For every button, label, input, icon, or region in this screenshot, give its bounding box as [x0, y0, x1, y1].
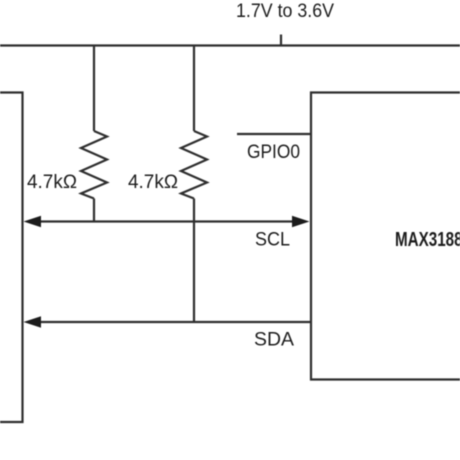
svg-text:4.7kΩ: 4.7kΩ	[128, 172, 178, 193]
svg-text:GPIO0: GPIO0	[247, 142, 300, 163]
svg-text:SDA: SDA	[254, 330, 294, 351]
wire: R2 to SDA net	[193, 199, 195, 323]
svg-text:1.7V to 3.6V: 1.7V to 3.6V	[236, 1, 334, 22]
svg-text:SCL: SCL	[255, 230, 290, 251]
resistor R1 4.7k	[81, 131, 107, 199]
SDA arrowhead left	[24, 316, 42, 328]
SCL bus wire	[36, 220, 296, 222]
wire: supply rail to resistor R1	[93, 46, 95, 132]
supply node tick	[280, 35, 282, 47]
SCL arrowhead left	[24, 216, 42, 228]
resistor R2 4.7k	[181, 131, 207, 199]
left box (host controller, cut off at left edge)	[0, 93, 23, 423]
wire: supply rail to resistor R2	[193, 46, 195, 132]
svg-text:MAX31889: MAX31889	[395, 229, 460, 251]
SCL arrowhead right	[292, 216, 310, 228]
SDA bus wire	[36, 321, 311, 323]
GPIO0 pin wire	[237, 133, 311, 135]
right box U1 MAX31889 (cut off at right edge)	[311, 93, 460, 380]
wire: R1 to SCL net	[93, 199, 95, 222]
svg-text:4.7kΩ: 4.7kΩ	[27, 172, 77, 193]
supply rail wire (1.7V to 3.6V net)	[0, 44, 460, 46]
